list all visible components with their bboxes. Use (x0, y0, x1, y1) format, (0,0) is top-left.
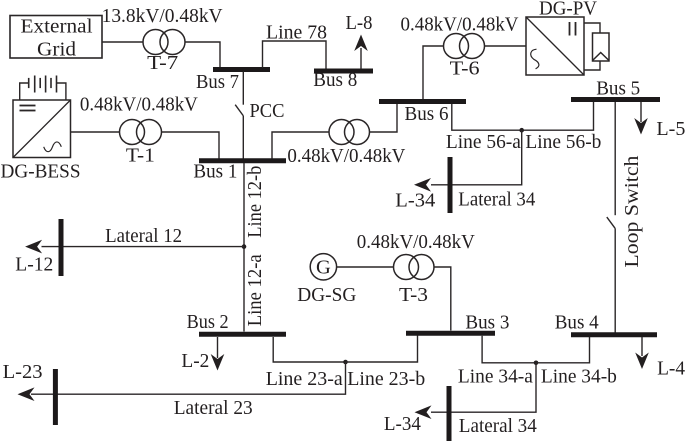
svg-text:Line 56-a: Line 56-a (446, 131, 521, 153)
svg-text:T-1: T-1 (126, 145, 155, 167)
lateral 23 bar (53, 369, 58, 425)
load L-5 arrow (634, 118, 648, 135)
svg-text:T-3: T-3 (399, 284, 428, 306)
wire Line 23-b (346, 336, 418, 363)
bus bar Bus 3 (406, 331, 495, 336)
wire Lateral 12 (42, 246, 245, 248)
svg-text:Bus 5: Bus 5 (596, 78, 640, 100)
bus bar Bus 2 (199, 332, 286, 337)
svg-text:0.48kV/0.48kV: 0.48kV/0.48kV (287, 145, 406, 167)
svg-text:13.8kV/0.48kV: 13.8kV/0.48kV (102, 5, 224, 27)
lateral 34 lower arrow (415, 405, 432, 419)
loop switch wire upper (614, 102, 616, 215)
wire T-6 to DG-PV inverter (485, 45, 527, 47)
wire transformer to Bus 6 (370, 104, 398, 132)
svg-text:Lateral 34: Lateral 34 (458, 189, 535, 211)
node junction 23 (343, 360, 348, 365)
svg-text:DG-SG: DG-SG (297, 284, 356, 306)
wire Line 23-a (273, 337, 345, 362)
svg-text:Bus 6: Bus 6 (405, 103, 449, 125)
node junction 34 (534, 361, 539, 366)
svg-text:Line 78: Line 78 (266, 22, 327, 44)
bus bar Bus 7 (213, 67, 270, 72)
transformer Bus1-Bus6 (329, 120, 370, 145)
PCC switch wire upper (242, 72, 244, 105)
label External Grid (21, 15, 93, 60)
DG-BESS battery symbol (20, 76, 66, 101)
svg-text:DG-PV: DG-PV (539, 0, 598, 20)
bus bar Bus 4 (571, 332, 657, 337)
svg-text:Bus 8: Bus 8 (313, 69, 357, 91)
svg-text:0.48kV/0.48kV: 0.48kV/0.48kV (357, 231, 476, 253)
wire Lateral 34 lower (431, 363, 536, 412)
loop switch blade (607, 217, 615, 228)
load L-4 arrow (635, 353, 649, 370)
svg-text:Line 34-b: Line 34-b (541, 365, 617, 387)
svg-text:Lateral 34: Lateral 34 (459, 415, 537, 437)
transformer T-7 (143, 30, 185, 55)
load L-5 wire (640, 102, 642, 122)
node junction 12 (242, 244, 247, 249)
svg-text:Line 23-a: Line 23-a (266, 368, 343, 390)
wire T-3 to Bus 3 (434, 267, 451, 331)
bus bar Bus 8 (314, 69, 373, 74)
wire DG-SG to T-3 (337, 266, 394, 268)
svg-text:Line 12-a: Line 12-a (244, 254, 266, 326)
svg-text:Grid: Grid (37, 39, 76, 61)
svg-text:Bus 1: Bus 1 (193, 160, 237, 182)
bus bar Bus 5 (571, 97, 660, 102)
svg-text:External: External (21, 15, 93, 37)
wire Line 56 (452, 102, 594, 130)
svg-text:L-5: L-5 (656, 118, 685, 140)
wire grid to T-7 (102, 41, 143, 43)
svg-text:L-12: L-12 (15, 254, 53, 276)
load L-2 arrow (211, 354, 225, 371)
svg-text:L-8: L-8 (346, 12, 373, 34)
lateral 34 upper bar (448, 157, 453, 213)
svg-text:G: G (316, 257, 331, 279)
PV panel (593, 33, 610, 61)
bus bar Bus 6 (379, 99, 466, 104)
svg-text:Line 34-a: Line 34-a (458, 365, 533, 387)
wire T-1 to Bus 1 (162, 132, 220, 159)
load L-8 arrow (354, 35, 368, 52)
generator DG-SG circle (310, 254, 336, 280)
wire T-7 to Bus 7 (185, 42, 220, 68)
load L-2 wire (217, 337, 219, 358)
svg-text:Lateral 12: Lateral 12 (105, 225, 182, 247)
lateral 12 bar (59, 219, 64, 276)
lateral 23 arrow (18, 387, 35, 401)
PCC switch blade (235, 105, 243, 116)
wire T-6 to Bus 6 (423, 46, 444, 100)
svg-text:Bus 2: Bus 2 (187, 311, 229, 333)
svg-text:Line 12-b: Line 12-b (244, 166, 266, 238)
svg-text:DG-BESS: DG-BESS (1, 160, 81, 182)
svg-text:L-4: L-4 (657, 358, 685, 380)
wire inverter to PV panel bottom (584, 61, 600, 70)
svg-text:PCC: PCC (250, 100, 285, 122)
load L-4 wire (641, 337, 643, 356)
svg-text:T-6: T-6 (450, 57, 480, 79)
svg-text:Bus 7: Bus 7 (196, 71, 239, 93)
transformer T-6 (444, 34, 485, 59)
wire Bus 1 to transformer 1-6 (272, 132, 329, 159)
svg-text:Loop Switch: Loop Switch (621, 156, 643, 268)
wire inverter to PV panel top (584, 23, 600, 33)
svg-text:L-34: L-34 (384, 413, 421, 435)
lateral 34 lower bar (447, 386, 452, 441)
DG-PV inverter box (526, 17, 584, 75)
svg-text:Bus 4: Bus 4 (555, 311, 599, 333)
svg-text:L-34: L-34 (395, 190, 435, 212)
wire Line 78 (263, 41, 327, 69)
wire Line 34-b (536, 337, 590, 363)
svg-text:Line 23-b: Line 23-b (347, 368, 425, 390)
svg-text:L-2: L-2 (181, 350, 209, 372)
lateral 12 arrow (25, 240, 42, 254)
wire Lateral 23 (31, 362, 346, 394)
loop switch wire lower (614, 228, 616, 332)
svg-text:Lateral 23: Lateral 23 (174, 397, 253, 419)
lateral 34 upper arrow (414, 178, 431, 192)
wire Line 12 (243, 163, 245, 332)
svg-text:0.48kV/0.48kV: 0.48kV/0.48kV (80, 93, 199, 115)
load L-8 wire (360, 48, 362, 69)
transformer T-1 (120, 120, 162, 145)
svg-text:T-7: T-7 (147, 52, 178, 74)
svg-text:0.48kV/0.48kV: 0.48kV/0.48kV (401, 14, 520, 36)
external grid box (10, 16, 102, 59)
svg-text:Line 56-b: Line 56-b (525, 131, 601, 153)
DG-BESS inverter box (13, 100, 71, 158)
PCC switch wire lower (242, 116, 244, 159)
wire Lateral 34 upper (431, 130, 522, 185)
transformer T-3 (394, 255, 435, 280)
svg-text:L-23: L-23 (3, 361, 43, 383)
wire Line 34-a (482, 336, 536, 363)
node junction 56 (519, 128, 524, 133)
wire DG-BESS to T-1 (71, 131, 120, 133)
bus bar Bus 1 (199, 158, 286, 163)
svg-text:Bus 3: Bus 3 (465, 311, 509, 333)
